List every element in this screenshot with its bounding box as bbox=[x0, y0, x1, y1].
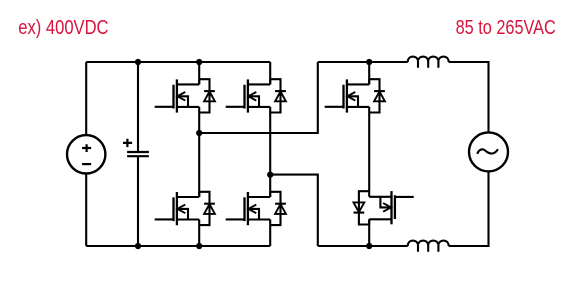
junction dot: right bottom rail / Q6 source bbox=[366, 243, 372, 249]
inductor L2 (bottom) bbox=[408, 241, 449, 252]
junction dot: bottom rail / capacitor bbox=[135, 243, 141, 249]
junction dot: bridge output node 1 bbox=[196, 130, 202, 136]
transistor Q3 (low-side left of bridge) bbox=[155, 192, 215, 225]
wire: Q1 source / Q3 drain lead bbox=[198, 107, 200, 197]
wire: bottom-left rail bbox=[86, 245, 270, 247]
transistor Q6 (right section low-side, rotated 180) bbox=[354, 191, 414, 224]
junction dot: top rail / Q1 drain bbox=[196, 59, 202, 65]
wire: top-right rail to inductor L1 bbox=[318, 61, 408, 63]
capacitor C1 (bulk, polarized) bbox=[123, 139, 149, 156]
wire: bottom-right rail to inductor L2 bbox=[318, 245, 408, 247]
junction dot: top rail / capacitor bbox=[135, 59, 141, 65]
wire: Q2 source / Q4 drain lead bbox=[269, 107, 271, 197]
voltage source V1 (DC 400V) bbox=[67, 135, 105, 173]
voltage source V2 (AC mains) bbox=[469, 132, 508, 171]
junction dot: bottom rail / Q3 source bbox=[196, 243, 202, 249]
wire: Q5 source / Q6 drain lead bbox=[368, 107, 370, 197]
wire: capacitor bottom lead bbox=[137, 157, 139, 246]
wire: top-left rail bbox=[86, 61, 270, 63]
wire: L1 to AC source top bbox=[449, 62, 489, 133]
junction dot: bridge output node 2 bbox=[267, 171, 273, 177]
wire: bridge output 1 to right section top bbox=[199, 62, 318, 133]
wire: bridge output 2 to right section bottom bbox=[270, 175, 318, 246]
wire: Q2 drain lead bbox=[269, 62, 271, 84]
wire: Q1 drain lead bbox=[198, 62, 200, 84]
wire: left vertical (DC source top lead) bbox=[85, 62, 87, 135]
wire: left vertical (DC source bottom lead) bbox=[85, 173, 87, 246]
wire: Q6 source lead bbox=[368, 219, 370, 246]
transistor Q5 (right section high-side) bbox=[325, 79, 385, 112]
inductor L1 (top) bbox=[408, 57, 449, 68]
svg-text:ex) 400VDC: ex) 400VDC bbox=[18, 17, 108, 39]
wire: Q3 source lead bbox=[198, 220, 200, 247]
wire: capacitor top lead bbox=[137, 62, 139, 151]
transistor Q1 (high-side left, N-MOSFET with body diode) bbox=[155, 79, 215, 112]
junction dot: right top rail / Q5 drain bbox=[366, 59, 372, 65]
transistor Q2 (high-side right of bridge) bbox=[226, 79, 286, 112]
wire: L2 to AC source bottom bbox=[449, 171, 489, 246]
transistor Q4 (low-side right of bridge) bbox=[226, 192, 286, 225]
wire: Q4 source lead bbox=[269, 220, 271, 247]
wire: Q5 drain lead bbox=[368, 62, 370, 84]
svg-text:85 to 265VAC: 85 to 265VAC bbox=[456, 17, 556, 39]
